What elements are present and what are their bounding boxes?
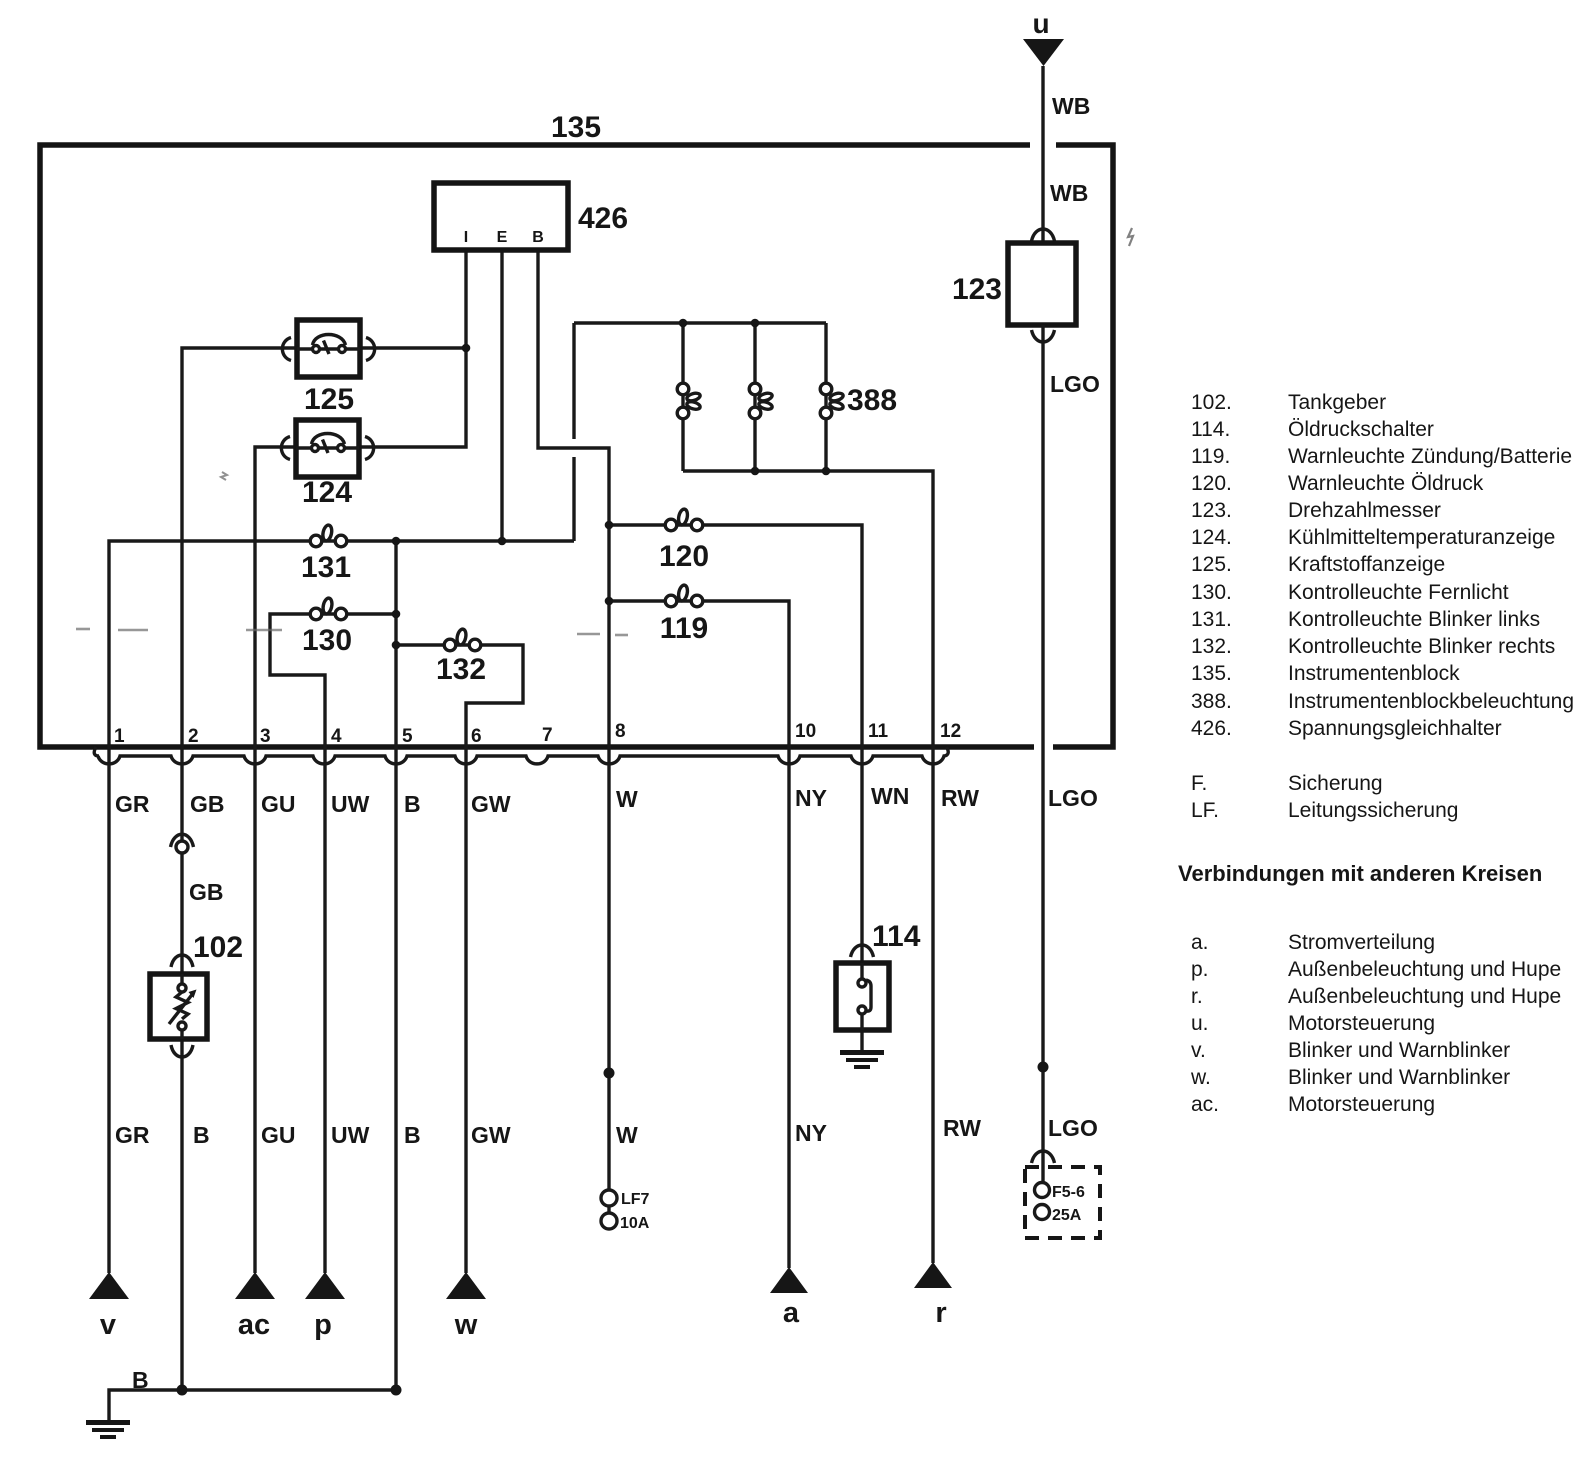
svg-text:Warnleuchte Zündung/Batterie: Warnleuchte Zündung/Batterie — [1288, 445, 1572, 468]
svg-text:WB: WB — [1052, 93, 1090, 119]
svg-text:11: 11 — [868, 721, 889, 742]
svg-text:Instrumentenblockbeleuchtung: Instrumentenblockbeleuchtung — [1288, 690, 1574, 713]
svg-text:GR: GR — [115, 1122, 150, 1148]
svg-text:119.: 119. — [1191, 445, 1230, 468]
svg-text:130.: 130. — [1191, 581, 1232, 604]
svg-text:WB: WB — [1050, 180, 1088, 206]
svg-text:GB: GB — [189, 879, 224, 905]
svg-text:LGO: LGO — [1048, 1115, 1098, 1141]
svg-text:130: 130 — [302, 624, 352, 657]
svg-text:ac.: ac. — [1191, 1093, 1219, 1116]
svg-text:W: W — [616, 1122, 638, 1148]
svg-text:GB: GB — [190, 791, 225, 817]
svg-text:GR: GR — [115, 791, 150, 817]
svg-text:Spannungsgleichhalter: Spannungsgleichhalter — [1288, 717, 1502, 740]
svg-text:LGO: LGO — [1050, 371, 1100, 397]
svg-text:Kontrolleuchte Blinker rechts: Kontrolleuchte Blinker rechts — [1288, 635, 1555, 658]
svg-text:Motorsteuerung: Motorsteuerung — [1288, 1012, 1435, 1035]
svg-text:124: 124 — [302, 476, 352, 509]
svg-text:Öldruckschalter: Öldruckschalter — [1288, 418, 1434, 441]
svg-text:F5-6: F5-6 — [1052, 1184, 1085, 1201]
svg-text:LF7: LF7 — [621, 1191, 650, 1208]
svg-text:7: 7 — [542, 725, 553, 746]
svg-text:u.: u. — [1191, 1012, 1209, 1035]
svg-text:GU: GU — [261, 791, 296, 817]
svg-text:125.: 125. — [1191, 553, 1232, 576]
svg-text:r.: r. — [1191, 985, 1203, 1008]
svg-text:W: W — [616, 786, 638, 812]
svg-text:2: 2 — [188, 726, 199, 747]
svg-text:Warnleuchte Öldruck: Warnleuchte Öldruck — [1288, 472, 1484, 495]
svg-text:135: 135 — [551, 111, 601, 144]
svg-text:GW: GW — [471, 1122, 511, 1148]
svg-text:Außenbeleuchtung und Hupe: Außenbeleuchtung und Hupe — [1288, 985, 1561, 1008]
svg-text:6: 6 — [471, 726, 482, 747]
svg-text:p.: p. — [1191, 958, 1209, 981]
svg-text:GU: GU — [261, 1122, 296, 1148]
svg-text:LGO: LGO — [1048, 785, 1098, 811]
svg-text:Instrumentenblock: Instrumentenblock — [1288, 662, 1460, 685]
svg-text:WN: WN — [871, 783, 909, 809]
svg-text:102: 102 — [193, 931, 243, 964]
svg-text:120.: 120. — [1191, 472, 1232, 495]
svg-text:12: 12 — [940, 721, 961, 742]
svg-text:a: a — [783, 1297, 800, 1329]
svg-text:124.: 124. — [1191, 526, 1232, 549]
svg-text:B: B — [193, 1122, 210, 1148]
svg-text:Sicherung: Sicherung — [1288, 772, 1383, 795]
svg-text:Kontrolleuchte Fernlicht: Kontrolleuchte Fernlicht — [1288, 581, 1509, 604]
svg-text:Drehzahlmesser: Drehzahlmesser — [1288, 499, 1441, 522]
svg-text:Leitungssicherung: Leitungssicherung — [1288, 799, 1458, 822]
svg-text:1: 1 — [114, 726, 125, 747]
svg-text:w: w — [454, 1309, 478, 1341]
svg-text:132: 132 — [436, 653, 486, 686]
svg-text:25A: 25A — [1052, 1207, 1082, 1224]
svg-text:426: 426 — [578, 202, 628, 235]
svg-text:B: B — [532, 229, 544, 246]
svg-text:Blinker und Warnblinker: Blinker und Warnblinker — [1288, 1039, 1510, 1062]
svg-text:GW: GW — [471, 791, 511, 817]
svg-text:F.: F. — [1191, 772, 1207, 795]
svg-text:E: E — [497, 229, 508, 246]
svg-text:RW: RW — [941, 785, 979, 811]
svg-text:102.: 102. — [1191, 391, 1232, 414]
svg-text:p: p — [314, 1309, 332, 1341]
svg-text:Stromverteilung: Stromverteilung — [1288, 931, 1435, 954]
svg-text:a.: a. — [1191, 931, 1209, 954]
svg-text:Außenbeleuchtung und Hupe: Außenbeleuchtung und Hupe — [1288, 958, 1561, 981]
svg-text:10: 10 — [795, 721, 816, 742]
svg-text:4: 4 — [331, 726, 342, 747]
svg-text:123: 123 — [952, 273, 1002, 306]
svg-text:388: 388 — [847, 384, 897, 417]
svg-text:UW: UW — [331, 1122, 370, 1148]
svg-text:388.: 388. — [1191, 690, 1232, 713]
svg-text:Blinker und Warnblinker: Blinker und Warnblinker — [1288, 1066, 1510, 1089]
svg-text:Kühlmitteltemperaturanzeige: Kühlmitteltemperaturanzeige — [1288, 526, 1555, 549]
svg-text:120: 120 — [659, 540, 709, 573]
svg-text:I: I — [464, 229, 468, 246]
svg-text:LF.: LF. — [1191, 799, 1219, 822]
svg-text:135.: 135. — [1191, 662, 1232, 685]
svg-text:Motorsteuerung: Motorsteuerung — [1288, 1093, 1435, 1116]
svg-text:114.: 114. — [1191, 418, 1230, 441]
svg-text:426.: 426. — [1191, 717, 1232, 740]
svg-text:NY: NY — [795, 785, 827, 811]
svg-text:131: 131 — [301, 551, 351, 584]
svg-text:v.: v. — [1191, 1039, 1206, 1062]
svg-text:UW: UW — [331, 791, 370, 817]
svg-text:Tankgeber: Tankgeber — [1288, 391, 1386, 414]
svg-text:114: 114 — [872, 920, 921, 953]
svg-text:u: u — [1032, 8, 1049, 39]
svg-text:B: B — [404, 1122, 421, 1148]
svg-text:B: B — [404, 791, 421, 817]
svg-text:5: 5 — [402, 726, 413, 747]
svg-text:ac: ac — [238, 1309, 270, 1341]
svg-text:Kontrolleuchte Blinker links: Kontrolleuchte Blinker links — [1288, 608, 1540, 631]
svg-text:w.: w. — [1190, 1066, 1211, 1089]
svg-text:131.: 131. — [1191, 608, 1232, 631]
svg-text:Kraftstoffanzeige: Kraftstoffanzeige — [1288, 553, 1445, 576]
svg-text:v: v — [100, 1309, 116, 1341]
svg-text:3: 3 — [260, 726, 271, 747]
svg-text:123.: 123. — [1191, 499, 1232, 522]
svg-text:r: r — [935, 1297, 946, 1329]
svg-text:Verbindungen mit anderen Kreis: Verbindungen mit anderen Kreisen — [1178, 861, 1542, 886]
svg-text:8: 8 — [615, 721, 626, 742]
svg-text:125: 125 — [304, 383, 354, 416]
svg-text:RW: RW — [943, 1115, 981, 1141]
svg-text:132.: 132. — [1191, 635, 1232, 658]
svg-text:119: 119 — [660, 612, 708, 645]
svg-text:NY: NY — [795, 1120, 827, 1146]
svg-text:10A: 10A — [620, 1215, 650, 1232]
svg-text:B: B — [132, 1367, 149, 1393]
